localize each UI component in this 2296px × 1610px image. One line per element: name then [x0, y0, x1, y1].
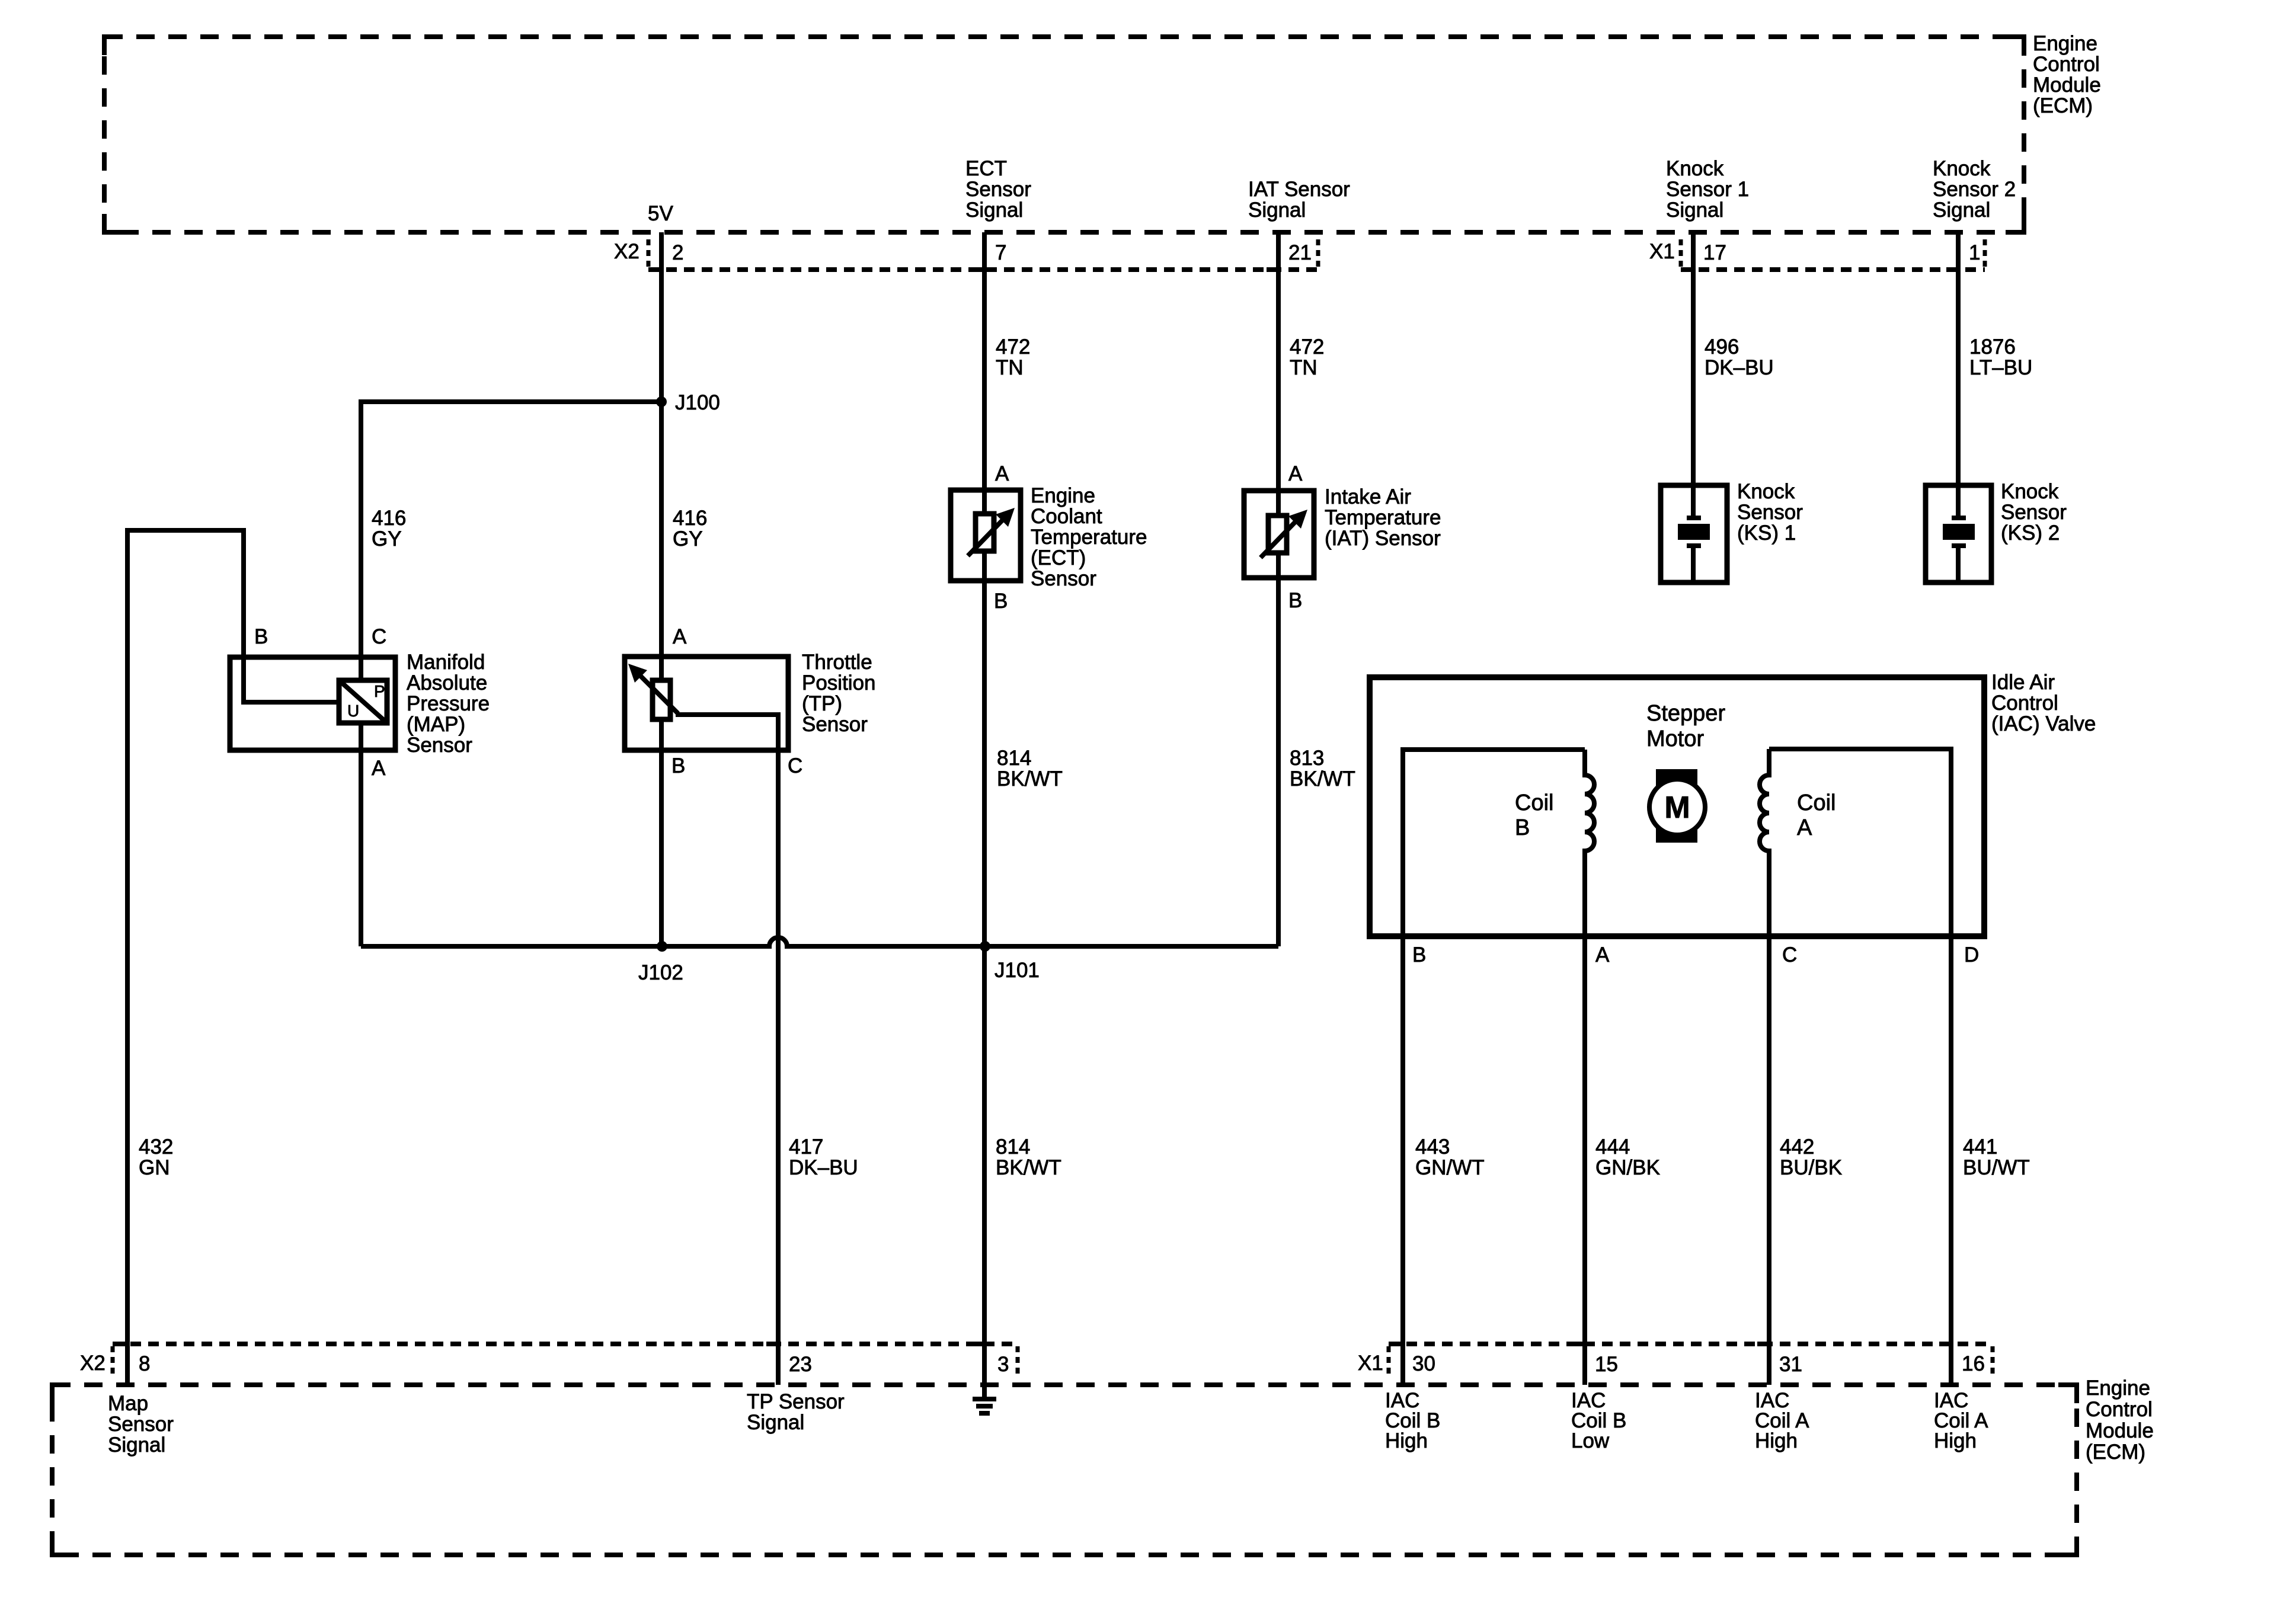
- svg-text:Low: Low: [1571, 1429, 1610, 1452]
- svg-text:Control: Control: [2033, 53, 2100, 76]
- svg-text:Map: Map: [108, 1392, 148, 1415]
- svg-text:Coolant: Coolant: [1031, 505, 1102, 528]
- svg-text:Signal: Signal: [1248, 199, 1306, 222]
- svg-text:(KS) 2: (KS) 2: [2001, 521, 2060, 545]
- KS2 piezo element: [1943, 485, 1975, 582]
- ECM box (top) - Engine Control Module dashed outline: [104, 37, 2024, 232]
- svg-text:TN: TN: [996, 356, 1024, 379]
- svg-text:J101: J101: [994, 959, 1040, 982]
- svg-text:1876: 1876: [1969, 335, 2016, 359]
- svg-text:A: A: [1797, 815, 1812, 840]
- pin 16: [1939, 1344, 1985, 1375]
- svg-text:417: 417: [789, 1135, 823, 1158]
- label Knock Sensor (KS) 2: [2001, 480, 2067, 545]
- wire 813 BK/WT (IAT pin B to low reference bus): [1276, 553, 1281, 946]
- svg-text:Sensor 2: Sensor 2: [1933, 178, 2016, 201]
- label X2 (top connector): [614, 240, 639, 263]
- svg-text:GY: GY: [673, 527, 703, 550]
- svg-text:Sensor: Sensor: [965, 178, 1031, 201]
- svg-text:TP Sensor: TP Sensor: [747, 1390, 845, 1413]
- svg-text:High: High: [1755, 1429, 1798, 1452]
- wire 814 BK/WT (ECT pin B through J101 to ground pin 3): [982, 551, 987, 1397]
- svg-text:(KS) 1: (KS) 1: [1737, 521, 1796, 545]
- label Knock Sensor (KS) 1: [1737, 480, 1803, 545]
- label Engine Coolant Temperature (ECT) Sensor: [1031, 484, 1147, 590]
- label Map Sensor Signal: [108, 1392, 174, 1457]
- svg-text:GY: GY: [372, 527, 402, 550]
- wire 442 BU/BK (IAC C to pin 31): [1767, 936, 1771, 1385]
- svg-text:B: B: [254, 625, 268, 648]
- svg-text:Sensor: Sensor: [1031, 567, 1096, 590]
- wire 444 GN/BK (IAC A to pin 15): [1582, 936, 1587, 1385]
- svg-text:Sensor: Sensor: [1737, 501, 1803, 524]
- svg-text:Idle Air: Idle Air: [1991, 671, 2055, 694]
- svg-text:B: B: [671, 754, 685, 777]
- pin 15: [1573, 1344, 1618, 1376]
- label IAT Sensor Signal: [1248, 178, 1350, 222]
- pin 23: [766, 1344, 812, 1376]
- label IAC Coil A High (pin 31): [1755, 1389, 1809, 1452]
- svg-text:472: 472: [996, 335, 1030, 359]
- MAP sensor box: [230, 657, 395, 750]
- svg-text:TN: TN: [1290, 356, 1318, 379]
- label 5V: [648, 202, 673, 225]
- label B (IAC pin B): [1412, 943, 1426, 966]
- stepper motor M symbol: [1649, 769, 1705, 843]
- label 432 GN: [139, 1135, 173, 1179]
- pin 8: [116, 1344, 150, 1375]
- svg-text:7: 7: [995, 241, 1006, 264]
- label X1 (top connector): [1649, 240, 1675, 263]
- svg-text:441: 441: [1963, 1135, 1997, 1158]
- svg-text:BU/BK: BU/BK: [1780, 1156, 1842, 1179]
- label 442 BU/BK: [1780, 1135, 1842, 1179]
- wire 496 DK-BU (pin 17 to KS1): [1691, 232, 1696, 485]
- TP potentiometer element: [653, 680, 670, 719]
- svg-text:Knock: Knock: [2001, 480, 2059, 503]
- svg-text:(IAC) Valve: (IAC) Valve: [1991, 712, 2096, 735]
- svg-text:Engine: Engine: [2033, 32, 2097, 55]
- svg-text:(ECM): (ECM): [2033, 94, 2093, 117]
- svg-text:442: 442: [1780, 1135, 1814, 1158]
- svg-text:X1: X1: [1649, 240, 1675, 263]
- svg-text:432: 432: [139, 1135, 173, 1158]
- label 472 TN (IAT): [1290, 335, 1324, 379]
- node J101 junction dot: [980, 941, 990, 952]
- label B (IAT pin B): [1288, 589, 1302, 612]
- wire 472 TN (pin 21 to IAT sensor): [1276, 232, 1281, 516]
- ECM box (bottom) - Engine Control Module dashed outline: [52, 1385, 2077, 1555]
- pin 1: [1946, 241, 1980, 270]
- svg-text:BU/WT: BU/WT: [1963, 1156, 2030, 1179]
- svg-text:IAT Sensor: IAT Sensor: [1248, 178, 1350, 201]
- svg-text:Pressure: Pressure: [407, 692, 490, 715]
- svg-text:Module: Module: [2086, 1419, 2154, 1442]
- svg-text:814: 814: [996, 1135, 1030, 1158]
- label X1 (bottom connector): [1358, 1352, 1383, 1375]
- pin 17: [1681, 241, 1726, 270]
- label A (TP pin A): [673, 625, 687, 648]
- label Stepper Motor: [1646, 701, 1725, 751]
- label 443 GN/WT: [1415, 1135, 1485, 1179]
- label J102: [638, 961, 683, 984]
- wire 443 GN/WT (IAC B to pin 30): [1400, 936, 1405, 1385]
- svg-text:Knock: Knock: [1933, 157, 1991, 180]
- svg-text:23: 23: [789, 1353, 812, 1376]
- svg-text:(MAP): (MAP): [407, 713, 465, 736]
- svg-text:A: A: [1595, 943, 1610, 966]
- connector X1 pin row (bottom): [1389, 1344, 1993, 1375]
- svg-text:A: A: [1288, 462, 1303, 485]
- label J101: [994, 959, 1040, 982]
- stepper motor coil B housing with coil arcs: [1403, 750, 1594, 936]
- label TP Sensor Signal: [747, 1390, 845, 1434]
- svg-text:High: High: [1385, 1429, 1428, 1452]
- svg-text:Sensor: Sensor: [407, 734, 472, 757]
- label J100: [675, 391, 720, 414]
- label Intake Air Temperature (IAT) Sensor: [1325, 485, 1441, 550]
- wire 5V feed (pin 2 to TP sensor pin A): [659, 232, 664, 680]
- label 444 GN/BK: [1595, 1135, 1660, 1179]
- label 1876 LT-BU: [1969, 335, 2032, 379]
- svg-text:Coil: Coil: [1515, 790, 1553, 815]
- label X2 (bottom connector): [80, 1352, 105, 1375]
- wire low reference bus (MAP A / J102 / J101 / IAT B) with hop over 417: [361, 937, 1278, 946]
- label D (IAC pin D): [1964, 943, 1979, 966]
- label 416 GY (right): [673, 507, 707, 550]
- connector X2 pin row (top): [648, 239, 1318, 270]
- label Engine Control Module (ECM) top: [2033, 32, 2101, 117]
- label A (IAT pin A): [1288, 462, 1303, 485]
- svg-text:X2: X2: [614, 240, 639, 263]
- svg-text:J102: J102: [638, 961, 683, 984]
- pin 2: [650, 241, 683, 270]
- svg-text:Absolute: Absolute: [407, 671, 487, 694]
- svg-text:X1: X1: [1358, 1352, 1383, 1375]
- wire 472 TN (pin 7 to ECT sensor): [982, 232, 987, 514]
- svg-text:B: B: [994, 590, 1008, 613]
- svg-text:Motor: Motor: [1646, 726, 1704, 751]
- svg-text:Sensor: Sensor: [802, 713, 868, 736]
- label 472 TN (ECT): [996, 335, 1030, 379]
- svg-text:416: 416: [673, 507, 707, 530]
- wire MAP pin A to J102: [359, 723, 363, 946]
- svg-text:Throttle: Throttle: [802, 651, 872, 674]
- label Coil B: [1515, 790, 1553, 840]
- label Idle Air Control (IAC) Valve: [1991, 671, 2096, 735]
- pin 21: [1267, 241, 1312, 270]
- ECT thermistor element: [976, 514, 994, 551]
- svg-text:1: 1: [1969, 241, 1980, 264]
- KS1 piezo element: [1678, 485, 1710, 582]
- svg-text:Engine: Engine: [1031, 484, 1095, 507]
- svg-text:443: 443: [1415, 1135, 1450, 1158]
- svg-text:Sensor 1: Sensor 1: [1666, 178, 1749, 201]
- svg-text:DK–BU: DK–BU: [1705, 356, 1774, 379]
- svg-text:(ECT): (ECT): [1031, 546, 1086, 569]
- svg-text:Engine: Engine: [2086, 1377, 2150, 1400]
- svg-text:GN/WT: GN/WT: [1415, 1156, 1485, 1179]
- svg-text:M: M: [1664, 790, 1690, 825]
- wire 416 GY left branch (J100 to MAP pin C): [361, 402, 661, 680]
- label A (MAP pin A): [372, 757, 386, 780]
- svg-text:Manifold: Manifold: [407, 651, 485, 674]
- connector X2 pin row (bottom): [113, 1344, 1018, 1375]
- wire 1876 LT-BU (pin 1 to KS2): [1956, 232, 1961, 485]
- ECT sensor box: [951, 490, 1021, 581]
- svg-text:Intake Air: Intake Air: [1325, 485, 1411, 508]
- svg-text:472: 472: [1290, 335, 1324, 359]
- IAC valve outer box: [1370, 677, 1984, 936]
- label B (TP pin B): [671, 754, 685, 777]
- svg-text:DK–BU: DK–BU: [789, 1156, 858, 1179]
- svg-text:813: 813: [1290, 747, 1324, 770]
- svg-text:Sensor: Sensor: [2001, 501, 2067, 524]
- svg-text:A: A: [673, 625, 687, 648]
- svg-text:Control: Control: [2086, 1398, 2153, 1421]
- wire 441 BU/WT (IAC D to pin 16): [1949, 936, 1953, 1385]
- label IAC Coil B Low: [1571, 1389, 1626, 1452]
- svg-text:Temperature: Temperature: [1031, 526, 1147, 549]
- label B (ECT pin B): [994, 590, 1008, 613]
- svg-text:P: P: [374, 682, 385, 700]
- label A (ECT pin A): [995, 462, 1009, 485]
- TP sensor box: [625, 657, 788, 750]
- svg-text:B: B: [1412, 943, 1426, 966]
- ECT thermistor arrow: [968, 508, 1015, 556]
- svg-text:(ECM): (ECM): [2086, 1441, 2145, 1464]
- svg-text:Position: Position: [802, 671, 876, 694]
- node J100 junction dot: [656, 396, 667, 407]
- svg-text:21: 21: [1288, 241, 1312, 264]
- svg-text:U: U: [347, 702, 359, 720]
- svg-text:B: B: [1515, 815, 1530, 840]
- svg-text:Temperature: Temperature: [1325, 506, 1441, 529]
- svg-text:B: B: [1288, 589, 1302, 612]
- svg-text:Module: Module: [2033, 73, 2101, 97]
- svg-text:J100: J100: [675, 391, 720, 414]
- label IAC Coil B High: [1385, 1389, 1440, 1452]
- svg-text:Coil: Coil: [1797, 790, 1835, 815]
- svg-text:Signal: Signal: [747, 1411, 804, 1434]
- svg-text:Knock: Knock: [1666, 157, 1724, 180]
- svg-text:A: A: [995, 462, 1009, 485]
- svg-text:GN/BK: GN/BK: [1595, 1156, 1660, 1179]
- svg-text:LT–BU: LT–BU: [1969, 356, 2032, 379]
- svg-text:496: 496: [1705, 335, 1739, 359]
- wire TP wiper to pin C (417 circuit): [676, 715, 778, 1385]
- svg-text:A: A: [372, 757, 386, 780]
- svg-text:BK/WT: BK/WT: [997, 767, 1063, 790]
- knock sensor KS1 box: [1661, 485, 1727, 582]
- knock sensor KS2 box: [1926, 485, 1991, 582]
- pin 30: [1391, 1344, 1435, 1375]
- svg-text:814: 814: [997, 747, 1031, 770]
- svg-text:(TP): (TP): [802, 692, 842, 715]
- pin 7: [973, 241, 1006, 270]
- pin 3: [973, 1344, 1009, 1376]
- label ECT Sensor Signal: [965, 157, 1031, 222]
- svg-text:30: 30: [1412, 1352, 1435, 1375]
- label C (MAP pin C): [372, 625, 386, 648]
- svg-text:5V: 5V: [648, 202, 673, 225]
- label C (IAC pin C): [1782, 943, 1797, 966]
- svg-text:BK/WT: BK/WT: [1290, 767, 1355, 790]
- svg-text:Signal: Signal: [108, 1433, 165, 1457]
- TP wiper arrow: [628, 664, 678, 713]
- IAT sensor box: [1244, 491, 1314, 578]
- MAP pressure transducer symbol U/P: [339, 680, 387, 723]
- label B (MAP pin B): [254, 625, 268, 648]
- label Manifold Absolute Pressure (MAP) Sensor: [407, 651, 490, 757]
- svg-text:15: 15: [1595, 1353, 1618, 1376]
- pin 31: [1757, 1344, 1802, 1376]
- label C (TP pin C): [788, 754, 802, 777]
- svg-text:High: High: [1934, 1429, 1977, 1452]
- svg-text:16: 16: [1962, 1352, 1985, 1375]
- svg-text:2: 2: [672, 241, 683, 264]
- label 813 BK/WT (mid): [1290, 747, 1355, 790]
- label Knock Sensor 1 Signal: [1666, 157, 1749, 222]
- label Knock Sensor 2 Signal: [1933, 157, 2016, 222]
- svg-text:Signal: Signal: [965, 199, 1023, 222]
- ground symbol (ECM internal ground at pin 3): [973, 1399, 996, 1413]
- svg-text:D: D: [1964, 943, 1979, 966]
- IAT thermistor element: [1268, 516, 1287, 553]
- IAT thermistor arrow: [1261, 510, 1307, 558]
- svg-text:31: 31: [1779, 1353, 1802, 1376]
- wire 432 GN (MAP pin B to ECM pin 8): [127, 530, 339, 1385]
- svg-text:C: C: [788, 754, 802, 777]
- label 441 BU/WT: [1963, 1135, 2030, 1179]
- label 416 GY (left): [372, 507, 406, 550]
- label 814 BK/WT (mid): [997, 747, 1063, 790]
- svg-text:Signal: Signal: [1933, 199, 1990, 222]
- svg-text:ECT: ECT: [965, 157, 1007, 180]
- svg-text:GN: GN: [139, 1156, 170, 1179]
- svg-text:17: 17: [1703, 241, 1726, 264]
- svg-text:C: C: [1782, 943, 1797, 966]
- label IAC Coil A High (pin 16): [1934, 1389, 1988, 1452]
- svg-text:Knock: Knock: [1737, 480, 1795, 503]
- svg-text:Signal: Signal: [1666, 199, 1723, 222]
- svg-text:3: 3: [997, 1353, 1009, 1376]
- svg-text:(IAT) Sensor: (IAT) Sensor: [1325, 527, 1441, 550]
- svg-text:8: 8: [139, 1352, 150, 1375]
- label Throttle Position (TP) Sensor: [802, 651, 876, 736]
- label Engine Control Module (ECM) bottom: [2086, 1377, 2154, 1464]
- svg-text:BK/WT: BK/WT: [996, 1156, 1061, 1179]
- label 417 DK-BU: [789, 1135, 858, 1179]
- svg-text:Sensor: Sensor: [108, 1413, 174, 1436]
- label 496 DK-BU: [1705, 335, 1774, 379]
- svg-text:Stepper: Stepper: [1646, 701, 1725, 726]
- label 814 BK/WT (bottom): [996, 1135, 1061, 1179]
- wire TP pin B to J102: [659, 719, 664, 946]
- svg-text:X2: X2: [80, 1352, 105, 1375]
- node J102 junction dot: [657, 941, 667, 952]
- stepper motor coil A housing with coil arcs: [1760, 749, 1951, 936]
- svg-text:444: 444: [1595, 1135, 1630, 1158]
- svg-text:C: C: [372, 625, 386, 648]
- svg-text:Control: Control: [1991, 692, 2058, 715]
- svg-text:416: 416: [372, 507, 406, 530]
- label Coil A: [1797, 790, 1835, 840]
- connector X1 pin row (top): [1681, 239, 1985, 270]
- label A (IAC pin A): [1595, 943, 1610, 966]
